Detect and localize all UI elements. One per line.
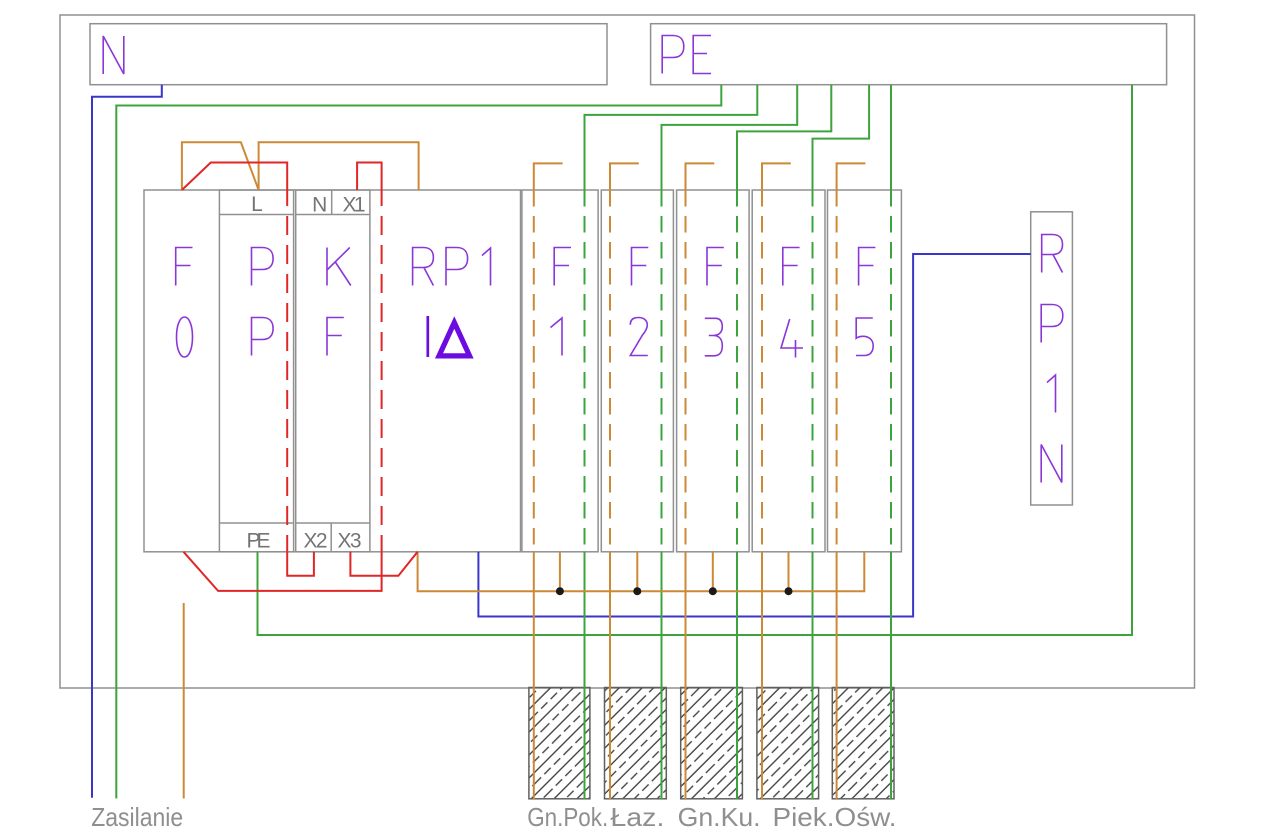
wire X3 to RP1 output (red) [350, 552, 417, 576]
wire PE to cable 1 (green) [585, 85, 758, 799]
svg-text:X3: X3 [338, 530, 362, 553]
main apparatus box [144, 190, 521, 552]
svg-text:X2: X2 [304, 530, 328, 553]
wire N to RP1N busbar (blue) [478, 254, 1030, 617]
wire F0 out to PP-L (red) [182, 163, 314, 576]
wire L F0 to terminal L (orange) [182, 142, 259, 190]
wire PE to cable 2 (green) [662, 85, 798, 799]
wire L terminal to RP1 input (orange) [259, 142, 419, 190]
breaker F5 column [828, 190, 902, 552]
wire N supply (blue) from N bus to feeder [92, 85, 162, 798]
cable Osw. [773, 688, 897, 833]
breaker F3 column [677, 190, 750, 552]
svg-text:Piek.Ośw.: Piek.Ośw. [773, 802, 897, 832]
svg-text:Łaz.: Łaz. [610, 802, 664, 832]
cable Gn.Ku. [678, 688, 761, 833]
wire L through breaker F1 (orange) [534, 163, 563, 799]
terminal block PP [219, 190, 293, 553]
wire phase busbar to breakers (orange) [418, 552, 865, 591]
wire PE to cable 3 (green) [737, 85, 831, 799]
svg-text:N: N [312, 194, 327, 217]
node N busbar box [90, 24, 607, 85]
svg-text:Gn.Ku.: Gn.Ku. [678, 802, 761, 832]
breaker F2 column [601, 190, 673, 552]
enclosure frame [60, 15, 1195, 688]
wire PE to cable 4 (green) [813, 85, 870, 799]
RCD RP1 [413, 248, 491, 358]
svg-text:PE: PE [247, 530, 271, 553]
wire L through breaker F4 (orange) [762, 163, 791, 799]
junction dots [556, 587, 793, 595]
svg-text:X1: X1 [343, 194, 366, 217]
cable Gn.Pok. [527, 688, 608, 833]
node PE busbar box [651, 24, 1167, 85]
wire L through breaker F2 (orange) [610, 163, 639, 799]
wire PE feeder (green) [116, 85, 721, 799]
svg-text:Zasilanie: Zasilanie [91, 802, 183, 832]
svg-text:L: L [251, 193, 263, 216]
cable Laz. [605, 688, 667, 833]
wire X1 to RP1 (red) [184, 163, 382, 591]
wire L through breaker F5 (orange) [837, 163, 866, 799]
breaker F4 column [752, 190, 825, 552]
wire PE terminal to PE bus (green) [258, 85, 1133, 635]
breaker F0 column [176, 248, 193, 358]
wire PE to cable 5 (green) [890, 85, 892, 799]
wire L through breaker F3 (orange) [686, 163, 715, 799]
value IDelta symbol [428, 316, 470, 357]
busbar RP1N box [1031, 212, 1073, 505]
breaker F1 column [522, 190, 598, 552]
svg-text:Gn.Pok.: Gn.Pok. [527, 802, 608, 832]
wire supply Zasilanie (orange) [183, 603, 185, 799]
cable Piek. [757, 688, 819, 799]
contactor KF [296, 190, 370, 553]
